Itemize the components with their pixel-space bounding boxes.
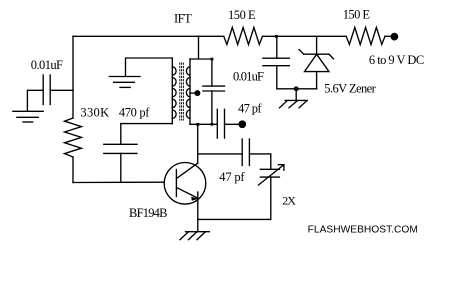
wire base rail [73,181,164,183]
svg-text:BF194B: BF194B [129,206,168,220]
capacitor C4 47pf [216,109,218,138]
transformer T1 secondary winding bumps [186,67,190,119]
diode D1 triangle [305,54,330,71]
node junction supply cap [275,35,278,38]
svg-text:150 E: 150 E [343,7,371,21]
wire IFT primary top to ground [126,58,173,77]
wire zener bottom lead [316,72,318,89]
svg-text:47 pf: 47 pf [219,170,245,184]
wire C6 bottom stub [276,66,278,89]
wire C3 bottom stub [211,91,213,124]
node antenna terminal dot [239,121,245,127]
transformer T1 IFT primary rail [171,58,173,124]
capacitor C2 470pf [104,143,137,145]
diode D1 5.6V zener cathode bar [304,53,329,55]
transformer T1 IFT primary winding bumps [172,67,176,119]
transistor Q1 base bar [175,170,177,197]
resistor R3 330K [65,118,82,157]
wire C4 to antenna dot [225,123,240,125]
wire C6 top stub [276,36,278,58]
resistor R2 150E [346,27,385,44]
capacitor C6 0.01uF supply [263,57,289,59]
transformer T1 secondary bottom lead [190,123,217,125]
node junction secondary top [211,58,214,61]
wire top rail left segment [73,35,224,37]
capacitor C2 470pf bottom lead [120,153,122,182]
node tap terminal dot [195,91,200,96]
svg-text:47 pf: 47 pf [238,102,262,116]
wire to supply terminal [385,35,391,37]
ground G1 [13,110,43,112]
wire emitter vertical [197,192,199,232]
node junction ground branch [294,87,298,91]
svg-text:150 E: 150 E [228,8,256,22]
ground G2 [109,76,140,78]
svg-text:330K: 330K [80,106,109,120]
svg-text:6 to 9 V DC: 6 to 9 V DC [369,53,424,67]
svg-text:2X: 2X [282,193,296,207]
resistor R1 150E [224,27,263,44]
transistor Q1 emitter lead [176,188,198,199]
svg-text:FLASHWEBHOST.COM: FLASHWEBHOST.COM [308,224,418,235]
svg-text:470 pf: 470 pf [119,106,150,120]
wire C3 top stub [211,59,213,86]
ground G4 [285,99,307,101]
svg-text:0.01uF: 0.01uF [233,69,264,83]
transistor Q1 collector lead [176,163,197,178]
capacitor C5 47pf [241,139,243,166]
ground G3 [186,231,210,233]
transformer T1 secondary top lead [190,58,212,60]
node junction collector branch [196,123,199,126]
wire collector drop [197,124,199,163]
capacitor C2 470pf top lead [121,123,173,125]
capacitor C3 0.01uF tank [203,85,225,87]
wire left vertical upper [72,36,74,118]
wire C5 to trimmer [249,154,270,169]
transistor Q1 BF194B circle [164,163,206,205]
transformer T1 core [179,63,181,120]
transformer T1 secondary rail [189,59,191,124]
svg-text:5.6V Zener: 5.6V Zener [324,82,376,96]
wire left vertical lower [72,157,74,183]
wire collector branch to C5 [198,153,243,155]
wire C1 left lead [27,90,43,111]
capacitor C1 0.01uF [42,75,44,105]
wire zener top lead [316,36,318,54]
wire C1 right lead [50,89,73,91]
transformer T1 tap lead [190,92,195,94]
trimmer VC1 arrow [258,165,284,185]
svg-text:0.01uF: 0.01uF [31,58,63,72]
transistor Q1 emitter arrowhead [191,197,198,201]
svg-text:IFT: IFT [174,12,192,26]
node supply terminal dot [391,33,397,39]
wire ground stub [295,89,297,101]
wire C6 to zener bottom [277,88,317,90]
node junction C3 bottom [211,123,214,126]
trimmer capacitor VC1 2X [260,168,279,170]
wire trimmer to emitter rail [198,177,271,219]
wire top rail middle segment [263,35,347,37]
wire drop from top rail to IFT [198,36,200,59]
